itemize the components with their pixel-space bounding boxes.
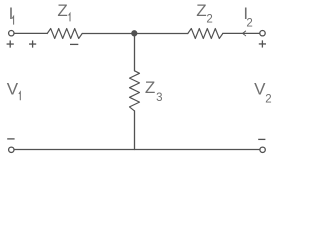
- node A (junction): [132, 31, 137, 36]
- svg-text:Z: Z: [57, 1, 67, 20]
- wire: Z1 to node A: [82, 33, 134, 35]
- voltage label V2: [254, 80, 272, 106]
- terminal port2- (bottom-right): [260, 147, 265, 152]
- impedance label Z3: [145, 78, 163, 104]
- terminal port1+ (top-left): [9, 31, 14, 36]
- current label I1: [9, 4, 14, 25]
- svg-text:2: 2: [246, 18, 252, 30]
- polarity + (port 2 outer): [259, 40, 266, 47]
- terminal port1- (bottom-left): [9, 147, 14, 152]
- wire: node A to resistor Z2: [135, 33, 188, 35]
- polarity - (port 1 bottom): [7, 138, 14, 140]
- svg-text:I: I: [9, 4, 14, 23]
- svg-text:2: 2: [265, 93, 271, 105]
- wire: port1+ to resistor Z1: [14, 32, 47, 34]
- resistor Z1: [47, 29, 82, 39]
- impedance label Z2: [196, 1, 213, 25]
- wire: node A down to resistor Z3: [134, 34, 136, 71]
- polarity + (Z1 left side): [29, 40, 36, 47]
- polarity + (port 1 outer): [7, 40, 14, 47]
- terminal port2+ (top-right): [260, 31, 265, 36]
- voltage label V1: [7, 79, 20, 100]
- svg-text:Z: Z: [145, 78, 155, 97]
- bottom rail wire: [15, 149, 260, 151]
- svg-text:3: 3: [156, 92, 162, 104]
- svg-text:V: V: [7, 79, 19, 98]
- resistor Z2: [188, 29, 223, 39]
- polarity - (Z1 right side): [70, 43, 78, 45]
- polarity - (port 2 bottom): [258, 138, 265, 140]
- resistor Z3: [130, 71, 140, 111]
- impedance label Z1: [57, 1, 70, 21]
- wire: Z2 to terminal port2+: [223, 32, 260, 34]
- svg-text:Z: Z: [196, 1, 206, 20]
- wire: Z3 to bottom rail: [134, 111, 136, 150]
- current arrow I2 (pointing left): [243, 31, 246, 36]
- svg-text:2: 2: [206, 14, 212, 26]
- current label I2: [243, 4, 252, 30]
